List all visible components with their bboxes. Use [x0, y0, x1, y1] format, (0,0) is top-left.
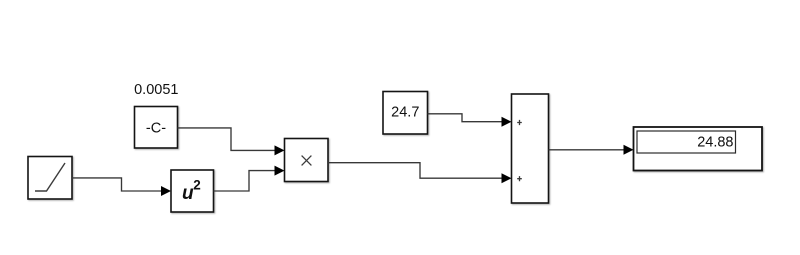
- arrowhead into product 2: [275, 166, 285, 176]
- svg-text:0.0051: 0.0051: [134, 82, 178, 98]
- wire ramp to u2: [72, 178, 169, 191]
- wire product to sum input 2: [328, 163, 510, 179]
- svg-text:24.88: 24.88: [697, 135, 733, 151]
- sum block: [512, 94, 549, 203]
- arrowhead into u2: [161, 186, 171, 196]
- math function block u^2: [171, 170, 214, 212]
- svg-text:24.7: 24.7: [391, 105, 419, 121]
- arrowhead into product 1: [275, 145, 285, 155]
- wire u2 to product input 2: [214, 171, 283, 191]
- svg-text:-C-: -C-: [146, 121, 166, 137]
- product block: [285, 139, 329, 182]
- wire -C- to product input 1: [178, 128, 283, 150]
- svg-text:2: 2: [193, 178, 201, 193]
- constant block 24.7: [383, 92, 428, 135]
- wire sum to display: [549, 149, 632, 151]
- wire 24.7 to sum input 1: [428, 114, 510, 122]
- arrowhead into sum 1: [502, 117, 512, 127]
- display block: [634, 127, 763, 171]
- arrowhead into sum 2: [502, 173, 512, 183]
- svg-text:u: u: [182, 183, 194, 204]
- ramp block (saturation icon): [28, 157, 72, 200]
- arrowhead into display: [624, 145, 634, 155]
- constant block -C-: [135, 107, 178, 149]
